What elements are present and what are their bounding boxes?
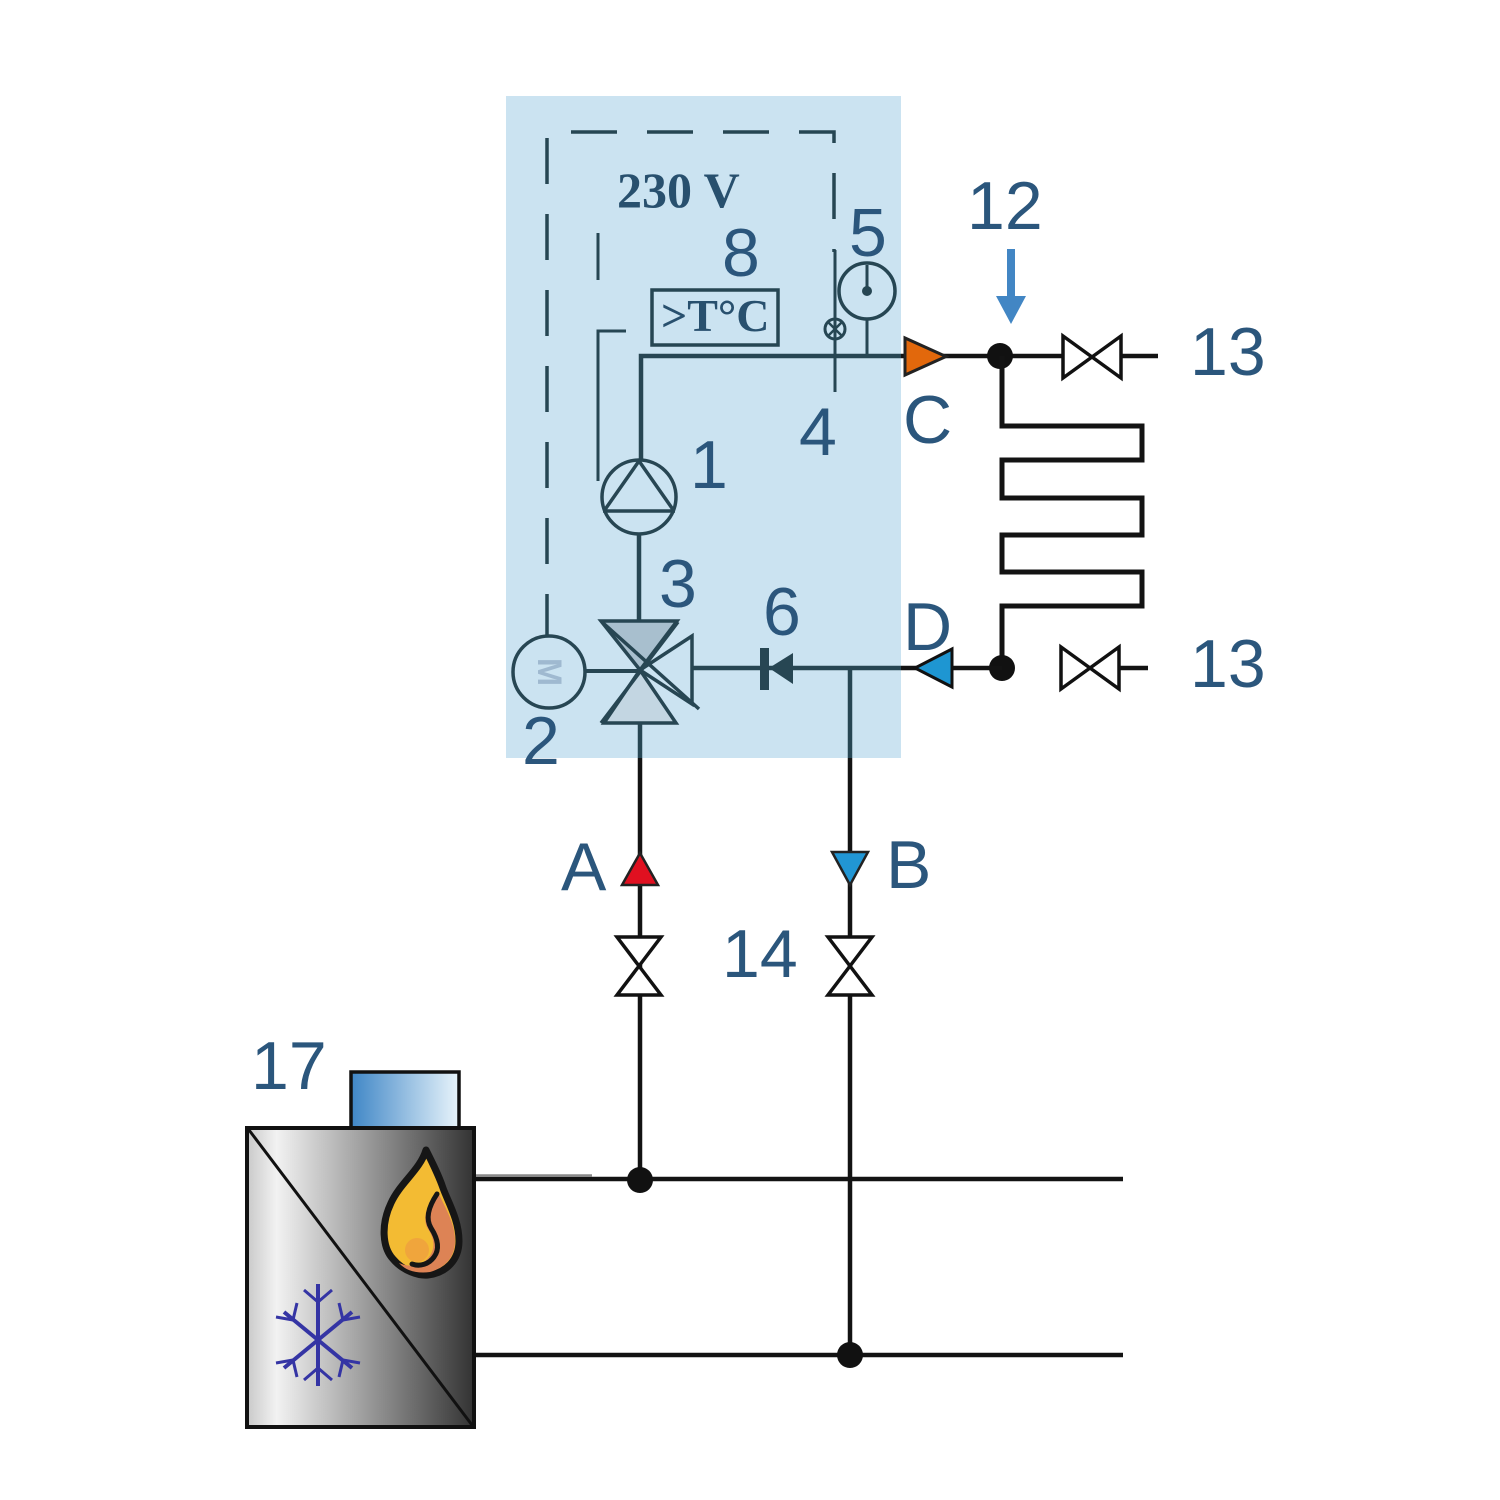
pump 1: [602, 460, 676, 534]
svg-text:2: 2: [522, 703, 560, 779]
svg-text:3: 3: [659, 546, 697, 622]
node supply junction: [627, 1167, 653, 1193]
thermostat box >T°C: [652, 290, 778, 345]
pipe A inside zone: [638, 723, 643, 758]
svg-text:17: 17: [251, 1028, 327, 1104]
control wire from thermostat to pump: [598, 331, 626, 481]
pipe D inside zone: [692, 666, 901, 671]
direction arrow 12: [1007, 249, 1015, 301]
control wire dash stub above elbow: [597, 233, 600, 280]
svg-text:8: 8: [722, 215, 760, 291]
svg-text:B: B: [886, 827, 931, 903]
boiler flue cap: [351, 1072, 459, 1128]
control zone background (hydraulic kit shaded box): [506, 96, 901, 758]
pipe C outside zone: [901, 354, 1063, 359]
mixing valve 3: [601, 621, 677, 670]
wire actuator to valve: [585, 669, 640, 673]
flow arrow B: [832, 852, 868, 885]
supply main pipe: [474, 1177, 1123, 1182]
pipe A down to supply main: [638, 758, 643, 1177]
pipe stub right of valve 13 bottom: [1119, 666, 1148, 671]
return main pipe: [474, 1353, 1123, 1358]
node bottom manifold junction: [989, 655, 1015, 681]
svg-text:13: 13: [1190, 314, 1266, 390]
svg-text:D: D: [903, 589, 952, 665]
flow arrow A: [622, 853, 658, 885]
svg-text:A: A: [561, 829, 607, 905]
thermometer stem: [866, 319, 869, 356]
230V dashed enclosure: [547, 132, 834, 640]
shutoff valve 14 left: [617, 937, 661, 995]
pipe C (supply from pump to manifold): [641, 356, 901, 462]
diagonal divider: [249, 1130, 472, 1425]
flow arrow D: [915, 649, 952, 687]
pipe stub right of valve 13 top: [1121, 354, 1158, 359]
actuator 2: [513, 636, 585, 708]
shutoff valve 14 right: [828, 937, 872, 995]
svg-text:4: 4: [799, 394, 837, 470]
pipe pump to mixing valve: [637, 534, 642, 622]
branch pipe B inside zone: [848, 668, 853, 758]
svg-text:6: 6: [763, 574, 801, 650]
svg-text:12: 12: [967, 168, 1043, 244]
flame icon: [384, 1150, 459, 1275]
svg-text:5: 5: [849, 195, 887, 271]
shutoff valve 13 bottom: [1061, 647, 1119, 689]
sensor bulb 4: [825, 319, 845, 339]
flow arrow C: [905, 338, 946, 375]
pipe D outside zone: [901, 666, 1002, 671]
check valve 6: [760, 648, 769, 690]
pipe B down to return main: [848, 758, 853, 1355]
supply pipe gray highlight near boiler: [476, 1174, 592, 1177]
heat pump body 17: [247, 1128, 474, 1427]
shutoff valve 13 top: [1063, 336, 1121, 378]
svg-text:M: M: [530, 658, 568, 686]
heating loop serpentine: [1002, 356, 1142, 668]
svg-text:>T°C: >T°C: [661, 290, 770, 341]
svg-text:1: 1: [690, 427, 728, 503]
sensor probe line 4: [834, 250, 837, 392]
svg-text:230 V: 230 V: [617, 162, 740, 218]
snowflake icon: [276, 1284, 360, 1386]
svg-text:14: 14: [722, 916, 798, 992]
thermometer 5: [839, 263, 895, 319]
node top manifold junction: [987, 343, 1013, 369]
svg-text:C: C: [903, 382, 952, 458]
svg-text:13: 13: [1190, 626, 1266, 702]
node return junction: [837, 1342, 863, 1368]
